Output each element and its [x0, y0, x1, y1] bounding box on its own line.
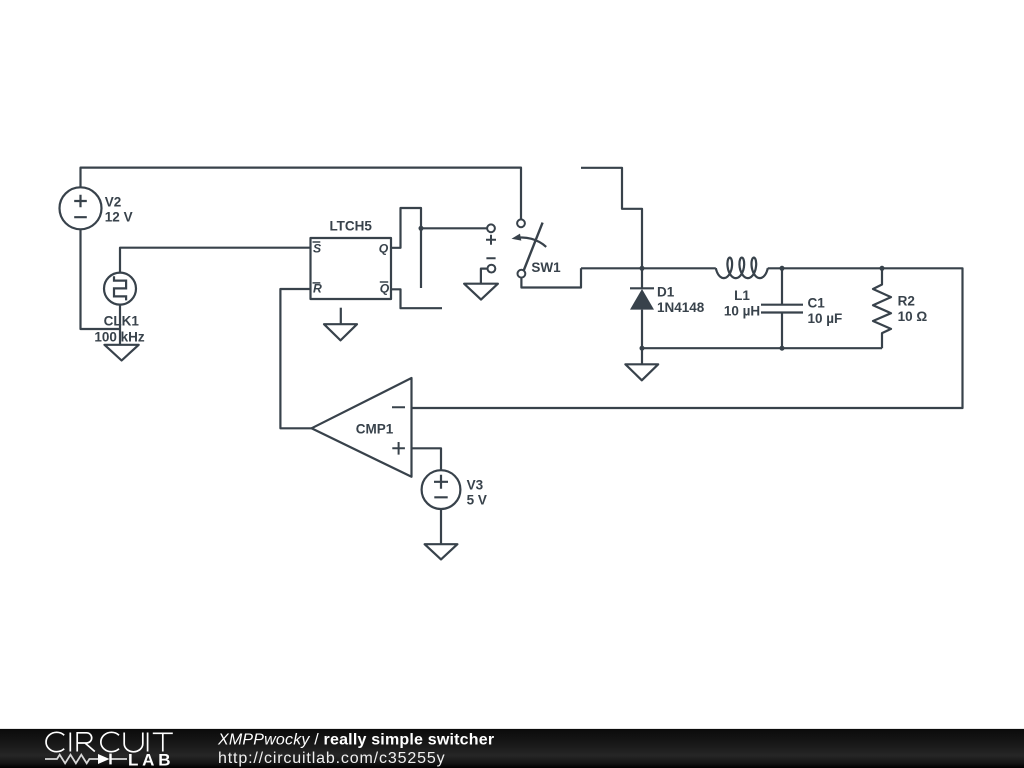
svg-text:CLK1: CLK1	[104, 313, 140, 328]
svg-text:Q: Q	[380, 281, 390, 295]
svg-text:S: S	[313, 242, 321, 256]
svg-text:V3: V3	[467, 477, 484, 492]
svg-text:1N4148: 1N4148	[657, 300, 705, 315]
svg-text:http://circuitlab.com/c35255y: http://circuitlab.com/c35255y	[218, 750, 445, 767]
svg-text:C1: C1	[808, 296, 826, 311]
svg-text:LTCH5: LTCH5	[329, 219, 372, 234]
svg-text:100 kHz: 100 kHz	[94, 330, 145, 345]
svg-text:L1: L1	[734, 288, 750, 303]
svg-text:10 µF: 10 µF	[808, 311, 843, 326]
svg-text:SW1: SW1	[531, 260, 561, 275]
svg-text:V2: V2	[105, 194, 122, 209]
svg-text:10 Ω: 10 Ω	[898, 309, 928, 324]
svg-text:LAB: LAB	[128, 750, 174, 768]
svg-text:XMPPwocky / really simple swit: XMPPwocky / really simple switcher	[217, 732, 494, 749]
svg-text:12 V: 12 V	[105, 209, 133, 224]
svg-text:Q: Q	[379, 242, 389, 256]
svg-text:R2: R2	[898, 294, 915, 309]
svg-text:D1: D1	[657, 285, 675, 300]
svg-text:CMP1: CMP1	[356, 422, 394, 437]
svg-text:5 V: 5 V	[467, 492, 487, 507]
svg-text:10 µH: 10 µH	[724, 303, 760, 318]
